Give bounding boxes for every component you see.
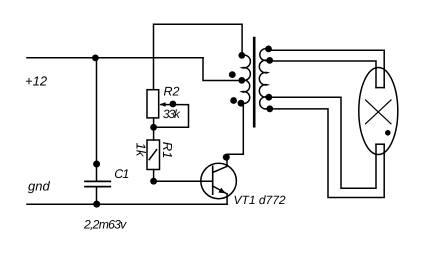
primary phasing dot lower <box>230 97 237 104</box>
secondary terminal dot 3 <box>265 94 272 101</box>
transistor VT1 body circle <box>201 163 237 199</box>
junction dot on wiper <box>170 101 177 108</box>
primary center tap dot <box>238 77 245 84</box>
transformer core <box>253 38 256 126</box>
wire +12 rail <box>27 57 203 59</box>
wire emitter down to ground <box>226 194 228 204</box>
wire wiper loop to R2 bottom <box>154 105 189 128</box>
svg-text:VT1 d772: VT1 d772 <box>234 193 286 207</box>
svg-text:C1: C1 <box>114 167 128 181</box>
wire top link from R2 top to primary top terminal <box>154 24 243 90</box>
resistor R2 <box>147 90 159 118</box>
resistor R1 (adjustable) <box>147 140 160 170</box>
svg-text:33k: 33k <box>163 107 181 121</box>
junction dot on C1 top lead <box>93 161 100 168</box>
wire secondary 3 to lamp bottom-left electrode <box>267 97 376 188</box>
wire base node to transistor base <box>154 180 213 182</box>
secondary terminal dot 2 <box>266 57 273 64</box>
wire secondary 4 to lamp bottom-right electrode <box>267 109 384 198</box>
wire R2 bottom to R1 top <box>153 118 155 140</box>
primary bottom terminal dot <box>238 100 245 107</box>
svg-text:gnd: gnd <box>28 178 50 193</box>
wire secondary 2 to lamp top-left electrode <box>267 61 376 88</box>
junction dot gnd/C1 <box>93 201 100 208</box>
wire +12 rail corner down to primary center tap <box>203 58 242 81</box>
lamp X mark <box>366 100 392 124</box>
junction dot at collector <box>223 154 230 161</box>
lamp envelope <box>359 68 398 155</box>
capacitor C1 bottom lead <box>96 187 98 204</box>
capacitor C1 top lead <box>96 58 98 181</box>
transistor base bar <box>212 166 214 194</box>
junction dot at R1 bottom / base node <box>150 178 157 185</box>
ground rail wire <box>27 203 227 205</box>
svg-text:2,2m63v: 2,2m63v <box>83 218 127 232</box>
R2 wiper arrow <box>161 104 172 106</box>
svg-text:R1: R1 <box>160 142 175 159</box>
capacitor C1 plates <box>85 180 110 182</box>
svg-text:R2: R2 <box>164 84 180 98</box>
primary phasing dot upper <box>229 71 236 78</box>
transformer secondary winding <box>259 49 267 109</box>
secondary terminal dot 1 <box>265 46 272 53</box>
transformer primary winding <box>242 55 250 104</box>
transistor collector lead <box>213 166 227 172</box>
R1 adjustment slash <box>149 150 156 160</box>
lamp dot <box>385 130 391 136</box>
wire collector to primary bottom <box>227 103 243 166</box>
secondary terminal dot 4 <box>266 105 273 112</box>
svg-text:+12: +12 <box>25 73 48 88</box>
lamp bottom filament <box>376 143 384 145</box>
wire secondary 1 to lamp top-right electrode <box>267 50 384 87</box>
junction node on +12 rail at C1 branch <box>92 55 99 62</box>
wire R1 bottom lead <box>153 170 155 182</box>
lamp top filament <box>376 87 384 89</box>
emitter arrowhead <box>218 188 226 194</box>
transistor emitter lead <box>213 186 227 194</box>
junction dot at R2 bottom <box>150 124 157 131</box>
primary top terminal dot <box>238 52 245 59</box>
svg-text:1k: 1k <box>133 143 148 158</box>
